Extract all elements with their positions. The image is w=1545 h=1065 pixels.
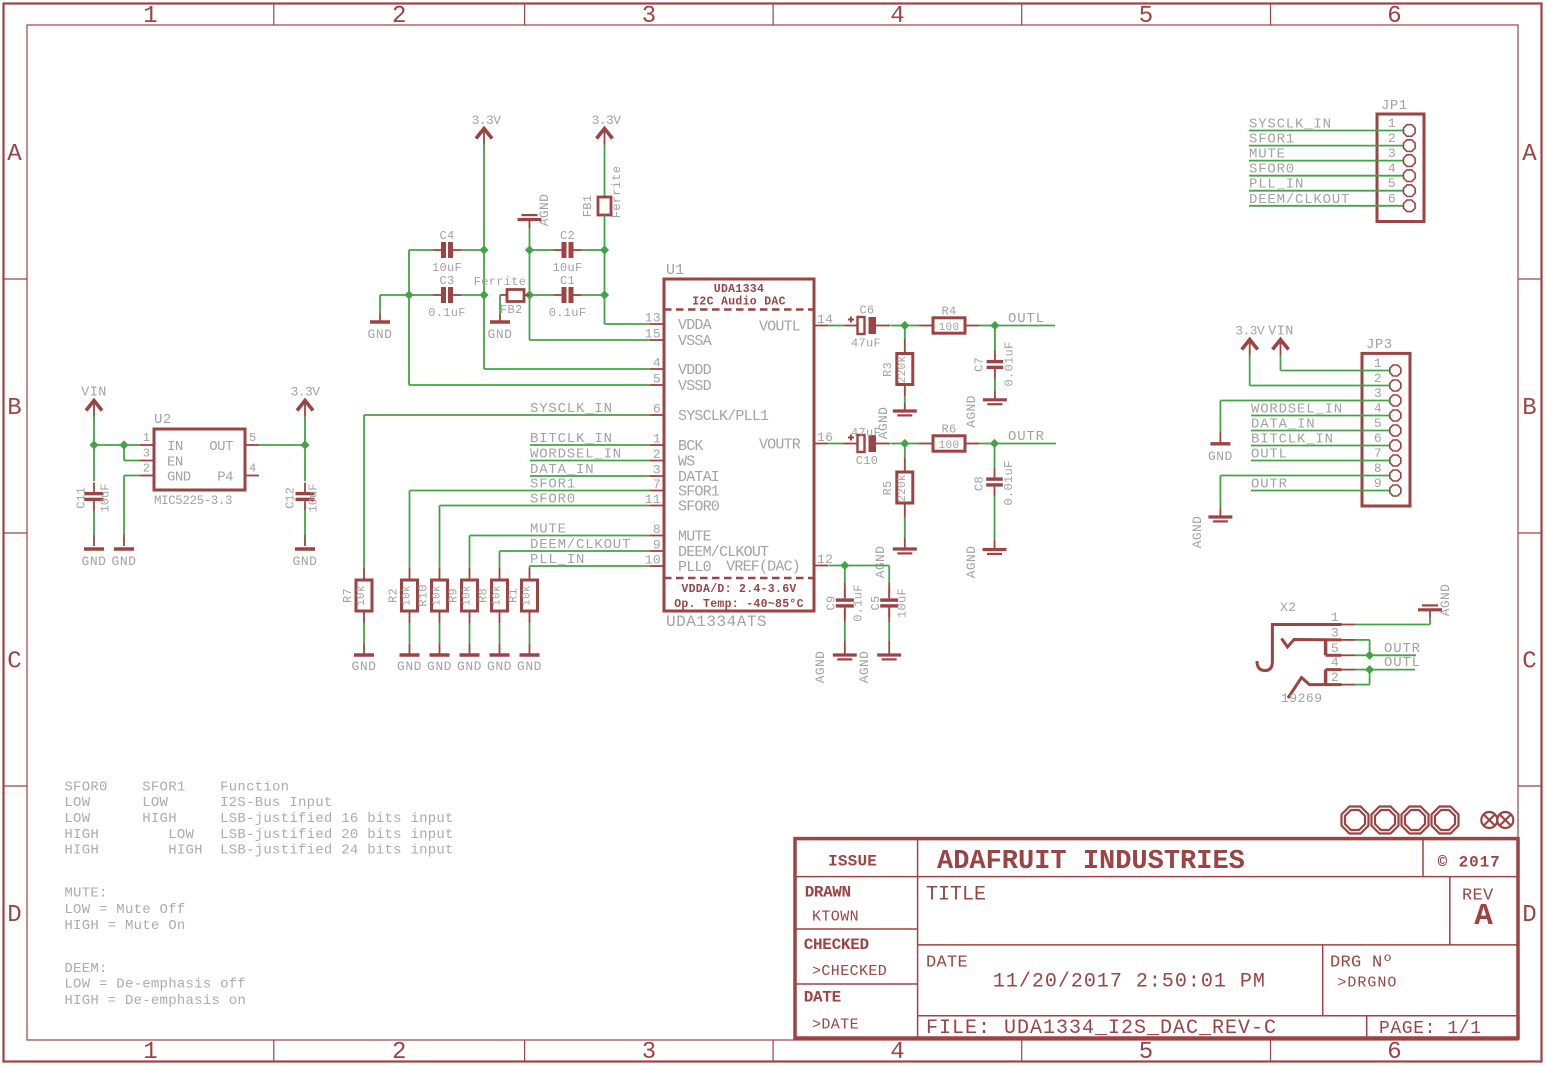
- net OUTR wire to JP3: [1251, 477, 1389, 493]
- net OUTL wire to JP3: [1251, 447, 1389, 463]
- U1 pin 4 VDDD: [650, 356, 712, 380]
- svg-text:1: 1: [653, 432, 661, 447]
- ferrite bead FB2: [474, 275, 530, 317]
- svg-text:2: 2: [392, 3, 406, 30]
- analog ground AGND under R3: [876, 407, 917, 439]
- svg-text:SFOR0 SFOR1 Function: SFOR0 SFOR1 Function: [64, 780, 289, 796]
- svg-text:BITCLK_IN: BITCLK_IN: [530, 431, 613, 447]
- wire C9 to AGND: [844, 609, 846, 655]
- svg-text:C3: C3: [439, 274, 454, 288]
- svg-text:U2: U2: [154, 412, 172, 428]
- U1 pin 10 PLL0: [645, 553, 712, 577]
- node OUTR-R junction: [900, 439, 909, 448]
- wire C3-left to U1.VSSD pin 5: [409, 295, 650, 385]
- svg-text:AGND: AGND: [1438, 584, 1453, 616]
- JP1 pin 4 SFOR0: [1249, 161, 1415, 181]
- svg-text:SFOR0: SFOR0: [1249, 162, 1295, 178]
- svg-text:5: 5: [1374, 416, 1382, 431]
- net OUTL label wire: [995, 311, 1055, 327]
- U1 pin 16 VOUTR: [759, 430, 833, 454]
- svg-text:3.3V: 3.3V: [592, 113, 622, 128]
- svg-text:GND: GND: [1208, 449, 1233, 464]
- wire EN elbow: [124, 445, 140, 461]
- svg-text:TITLE: TITLE: [926, 884, 986, 907]
- net DATA_IN wire to JP3: [1251, 417, 1389, 433]
- svg-text:R7: R7: [341, 588, 355, 603]
- wire U2.GND down: [124, 476, 140, 547]
- svg-text:R2: R2: [387, 588, 401, 603]
- svg-text:UDA1334ATS: UDA1334ATS: [666, 613, 767, 631]
- svg-text:C10: C10: [856, 454, 879, 468]
- wire X2 pin1 to AGND: [1355, 610, 1430, 625]
- wire R1 to GND: [529, 623, 531, 655]
- net PLL_IN wire: [530, 552, 651, 568]
- ground GND under R2: [397, 655, 422, 674]
- wire AGND line down to VSSA: [529, 250, 531, 295]
- resistor R10 10k: [417, 568, 448, 623]
- ground GND under R1: [517, 655, 542, 674]
- svg-text:4: 4: [653, 356, 661, 371]
- svg-text:AGND: AGND: [964, 546, 979, 578]
- U1 pin 8 MUTE: [650, 522, 712, 546]
- svg-text:DRG Nº: DRG Nº: [1330, 953, 1393, 972]
- node OUTR at X2: [1365, 651, 1374, 660]
- svg-text:AGND: AGND: [873, 546, 888, 578]
- power flag 3.3V at JP3: [1235, 324, 1265, 356]
- svg-text:LOW HIGH LSB-justifie: LOW HIGH LSB-justified 16 bits input: [64, 811, 453, 827]
- U1 pin 13 VDDA: [645, 311, 712, 335]
- svg-text:C8: C8: [973, 476, 987, 491]
- svg-text:SYSCLK_IN: SYSCLK_IN: [1249, 117, 1332, 133]
- U1 pin 1 BCK: [650, 432, 703, 456]
- title block frame: [795, 839, 1518, 1038]
- svg-text:0.01uF: 0.01uF: [1002, 460, 1016, 505]
- svg-text:R1: R1: [507, 588, 521, 603]
- svg-text:C5: C5: [869, 595, 883, 610]
- svg-text:6: 6: [1387, 3, 1401, 30]
- svg-text:>DRGNO: >DRGNO: [1337, 974, 1397, 991]
- svg-text:4: 4: [1331, 655, 1339, 670]
- svg-text:3: 3: [143, 447, 150, 461]
- svg-text:1: 1: [1374, 356, 1382, 371]
- svg-text:DEEM:: DEEM:: [64, 961, 107, 977]
- node FB2 right junction: [525, 290, 534, 299]
- svg-text:3: 3: [1374, 386, 1382, 401]
- svg-text:HIGH HIGH LSB-justifie: HIGH HIGH LSB-justified 24 bits input: [64, 843, 453, 859]
- capacitor C12 10uF: [284, 445, 321, 512]
- svg-text:GND: GND: [488, 327, 513, 342]
- connector X2 headphone jack: [1257, 600, 1355, 706]
- U1 pin 3 DATAI: [650, 463, 719, 487]
- analog ground AGND under C8: [964, 546, 1007, 578]
- wire R4 to OUTL junction: [979, 325, 995, 327]
- svg-text:1: 1: [143, 431, 150, 445]
- capacitor C3 0.1uF: [428, 274, 466, 320]
- capacitor C7 0.01uF: [973, 326, 1017, 387]
- net WORDSEL_IN wire to JP3: [1251, 402, 1389, 418]
- svg-text:C4: C4: [439, 229, 454, 243]
- svg-text:A: A: [7, 141, 22, 168]
- wire R7 to GND: [363, 623, 365, 655]
- svg-text:3.3V: 3.3V: [291, 385, 321, 400]
- wire U1 pin14 to C6: [828, 325, 844, 327]
- wire R6 to OUTR junction: [979, 443, 995, 445]
- wire X2 pin5: [1355, 654, 1370, 656]
- svg-text:R3: R3: [881, 362, 895, 377]
- JP1 pin 5 PLL_IN: [1249, 176, 1415, 196]
- notes DEEM: [64, 961, 246, 1009]
- svg-text:100: 100: [939, 440, 960, 452]
- ground GND under R7: [352, 655, 377, 674]
- power flag VIN at JP3: [1268, 325, 1294, 356]
- node C3 right junction: [479, 290, 488, 299]
- svg-text:GND: GND: [457, 659, 482, 674]
- vias: [1481, 812, 1513, 828]
- svg-text:>DATE: >DATE: [812, 1017, 859, 1034]
- svg-text:VSSA: VSSA: [678, 333, 712, 350]
- resistor R5 220k: [881, 444, 913, 518]
- svg-text:SYSCLK/PLL1: SYSCLK/PLL1: [678, 408, 769, 425]
- svg-text:11/20/2017 2:50:01 PM: 11/20/2017 2:50:01 PM: [993, 970, 1266, 993]
- svg-text:UDA1334: UDA1334: [714, 283, 764, 296]
- resistor R3 220k: [881, 326, 913, 397]
- JP1 pin 1 SYSCLK_IN: [1249, 116, 1415, 136]
- node C2 left junction: [525, 245, 534, 254]
- notes MUTE: [64, 886, 185, 934]
- capacitor C1 0.1uF: [530, 274, 605, 320]
- svg-text:19269: 19269: [1281, 691, 1323, 706]
- svg-text:VOUTR: VOUTR: [759, 437, 801, 454]
- title block REV cell: [1462, 887, 1494, 935]
- svg-text:8: 8: [653, 522, 661, 537]
- svg-text:5: 5: [1331, 641, 1339, 656]
- resistor R9 10k: [447, 568, 478, 623]
- analog ground AGND at JP3: [1190, 516, 1232, 548]
- node VIN junction: [89, 440, 98, 449]
- svg-text:10uF: 10uF: [552, 261, 582, 275]
- U1 pin 2 WS: [650, 447, 695, 471]
- svg-text:HIGH = Mute On: HIGH = Mute On: [64, 918, 185, 934]
- wire C4 left elbow: [409, 250, 433, 295]
- U1 pin 14 VOUTL: [759, 312, 833, 336]
- svg-text:WS: WS: [678, 454, 695, 471]
- svg-text:Ferrite: Ferrite: [474, 275, 527, 289]
- wire U1 pin12 VREF: [828, 565, 845, 567]
- node C1 right junction: [600, 290, 609, 299]
- svg-text:D: D: [1522, 902, 1536, 929]
- svg-text:C7: C7: [973, 357, 987, 372]
- svg-text:FB1: FB1: [581, 195, 595, 218]
- svg-text:A: A: [1522, 141, 1537, 168]
- analog ground AGND under C5: [857, 651, 901, 683]
- net DATA_IN wire: [530, 462, 650, 478]
- connector JP1: [1377, 98, 1424, 222]
- wire C3 left to GND: [380, 295, 433, 322]
- mounting holes: [1342, 807, 1459, 834]
- wire C3 right to rail: [461, 294, 484, 296]
- power flag 3.3V at U2 output: [291, 385, 321, 417]
- svg-text:HIGH = De-emphasis on: HIGH = De-emphasis on: [64, 993, 246, 1009]
- svg-text:4: 4: [1388, 161, 1396, 176]
- svg-text:OUTL: OUTL: [1008, 311, 1045, 327]
- svg-text:4: 4: [890, 3, 904, 30]
- resistor R8 10k: [477, 568, 508, 623]
- svg-text:C1: C1: [560, 274, 575, 288]
- wire C12 to GND: [304, 511, 306, 547]
- svg-text:C11: C11: [75, 487, 89, 509]
- svg-text:10uF: 10uF: [896, 588, 910, 618]
- wire R8 to GND: [499, 623, 501, 655]
- regulator U2 MIC5225-3.3: [140, 412, 259, 508]
- svg-text:VIN: VIN: [1268, 325, 1294, 340]
- resistor R4 100: [905, 305, 979, 335]
- resistor R1 10k: [507, 568, 538, 623]
- svg-text:8: 8: [1374, 461, 1382, 476]
- wire U1 pin16 to C10: [828, 443, 844, 445]
- svg-text:10k: 10k: [356, 585, 368, 606]
- U1 pin 15 VSSA: [645, 327, 712, 351]
- svg-text:AGND: AGND: [813, 651, 828, 683]
- capacitor C5 10uF: [869, 588, 910, 618]
- op-amp U1 UDA1334 I2C Audio DAC box: [664, 262, 814, 631]
- svg-text:DEEM/CLKOUT: DEEM/CLKOUT: [1249, 192, 1350, 208]
- node VREF junction: [840, 561, 849, 570]
- capacitor C10 47uF polarized: [844, 426, 890, 468]
- analog ground AGND at X2: [1418, 584, 1453, 616]
- svg-text:GND: GND: [112, 554, 137, 569]
- wire X2 pin4: [1355, 669, 1370, 671]
- U1 pin 7 SFOR1: [650, 477, 720, 501]
- svg-text:GND: GND: [82, 554, 107, 569]
- svg-text:GND: GND: [487, 659, 512, 674]
- svg-text:R10: R10: [417, 584, 431, 607]
- svg-text:LOW = De-emphasis off: LOW = De-emphasis off: [64, 977, 246, 993]
- JP1 pin 2 SFOR1: [1249, 131, 1415, 151]
- svg-text:X2: X2: [1280, 600, 1297, 615]
- wire U2.OUT to 3.3V: [259, 444, 305, 446]
- svg-text:10k: 10k: [522, 585, 534, 606]
- svg-text:MUTE: MUTE: [1249, 147, 1286, 163]
- svg-text:10uF: 10uF: [99, 484, 113, 513]
- svg-text:3: 3: [642, 3, 656, 30]
- svg-text:GND: GND: [427, 659, 452, 674]
- svg-text:3: 3: [1388, 146, 1396, 161]
- svg-text:DATE: DATE: [804, 989, 841, 1007]
- svg-text:JP1: JP1: [1381, 98, 1408, 114]
- svg-text:1: 1: [143, 1039, 157, 1065]
- svg-text:AGND: AGND: [1190, 516, 1205, 548]
- svg-text:OUTR: OUTR: [1251, 477, 1288, 493]
- svg-text:6: 6: [1388, 191, 1396, 206]
- svg-text:MIC5225-3.3: MIC5225-3.3: [154, 494, 232, 508]
- svg-text:AGND: AGND: [964, 395, 979, 427]
- svg-text:9: 9: [653, 538, 661, 553]
- svg-text:R9: R9: [447, 588, 461, 603]
- svg-text:0.01uF: 0.01uF: [1003, 341, 1017, 386]
- title block DRG cell: [1330, 953, 1397, 991]
- svg-text:2: 2: [653, 447, 661, 462]
- svg-text:5: 5: [1388, 176, 1396, 191]
- U1 pin 11 SFOR0: [645, 492, 720, 516]
- svg-text:MUTE:: MUTE:: [64, 886, 107, 902]
- resistor R6 100: [905, 423, 979, 453]
- wire JP3 pin 3 to GND: [1220, 401, 1389, 444]
- svg-text:VOUTL: VOUTL: [759, 319, 801, 336]
- wire C11 to GND: [93, 511, 95, 547]
- ground GND under FB2: [488, 322, 513, 342]
- ground GND left of C3: [368, 322, 393, 342]
- svg-text:© 2017: © 2017: [1438, 854, 1501, 872]
- svg-text:IN: IN: [167, 439, 183, 455]
- svg-text:PLL_IN: PLL_IN: [1249, 177, 1304, 193]
- capacitor C11 10uF: [75, 445, 113, 512]
- node EN junction: [119, 440, 128, 449]
- svg-text:I2C Audio DAC: I2C Audio DAC: [692, 296, 786, 309]
- svg-text:LOW LOW I2S-Bus Inpu: LOW LOW I2S-Bus Input: [64, 795, 332, 811]
- svg-text:15: 15: [645, 327, 661, 342]
- notes SFOR table: [64, 780, 453, 859]
- svg-text:>CHECKED: >CHECKED: [812, 963, 887, 980]
- wire VREF to C5 elbow: [845, 566, 889, 598]
- svg-text:VSSD: VSSD: [678, 378, 712, 395]
- svg-text:EN: EN: [167, 455, 183, 471]
- net BITCLK_IN wire to JP3: [1251, 432, 1389, 448]
- svg-text:B: B: [1522, 395, 1536, 422]
- svg-text:100: 100: [939, 322, 960, 334]
- wire FB2 left to GND: [499, 295, 501, 322]
- svg-text:4: 4: [890, 1039, 904, 1065]
- capacitor C6 47uF polarized: [844, 304, 890, 351]
- svg-text:WORDSEL_IN: WORDSEL_IN: [1251, 402, 1343, 418]
- net MUTE wire: [470, 522, 651, 569]
- ground GND under C11: [82, 549, 107, 569]
- svg-text:MUTE: MUTE: [530, 522, 567, 538]
- ground GND under U2: [112, 549, 137, 569]
- net SFOR1 wire: [410, 477, 651, 569]
- svg-text:OUTR: OUTR: [1008, 429, 1045, 445]
- ground GND under R9: [457, 655, 482, 674]
- capacitor C8 0.01uF: [973, 444, 1017, 506]
- wire FB2 right to U1.VSSA pin 15: [530, 295, 651, 340]
- svg-text:FILE: UDA1334_I2S_DAC_REV-C: FILE: UDA1334_I2S_DAC_REV-C: [926, 1017, 1277, 1040]
- wire R3 to AGND: [904, 396, 906, 411]
- svg-text:2: 2: [1331, 670, 1339, 685]
- net OUTL label at X2: [1370, 655, 1421, 671]
- capacitor C2 10uF: [544, 229, 591, 275]
- svg-text:OUTL: OUTL: [1251, 447, 1288, 463]
- U1 pin 12 VREF(DAC): [726, 552, 833, 576]
- wire VIN to JP3 pin 1: [1281, 356, 1390, 371]
- wire C8 to AGND: [994, 496, 996, 550]
- svg-text:13: 13: [645, 311, 661, 326]
- svg-text:0.1uF: 0.1uF: [428, 306, 466, 320]
- svg-text:AGND: AGND: [537, 194, 552, 226]
- svg-text:R4: R4: [941, 305, 956, 319]
- svg-text:10k: 10k: [492, 585, 504, 606]
- svg-text:KTOWN: KTOWN: [812, 909, 859, 926]
- svg-text:SYSCLK_IN: SYSCLK_IN: [530, 401, 613, 417]
- wire C7 to AGND: [994, 379, 996, 400]
- svg-text:2: 2: [143, 462, 150, 476]
- node OUT junction: [300, 440, 309, 449]
- ground GND under R8: [487, 655, 512, 674]
- wire 3.3V to FB1: [604, 145, 606, 198]
- svg-text:7: 7: [1374, 446, 1382, 461]
- svg-text:6: 6: [653, 402, 661, 417]
- svg-text:P4: P4: [217, 470, 233, 486]
- wire R10 to GND: [439, 623, 441, 655]
- svg-text:SFOR1: SFOR1: [1249, 132, 1295, 148]
- svg-text:U1: U1: [666, 262, 685, 279]
- analog ground AGND above C2: [518, 194, 553, 228]
- wire JP3 pin 8 to AGND: [1220, 476, 1389, 518]
- svg-text:5: 5: [1139, 3, 1153, 30]
- svg-text:GND: GND: [167, 470, 191, 486]
- svg-text:MUTE: MUTE: [678, 529, 712, 546]
- svg-text:R5: R5: [881, 480, 895, 495]
- svg-text:6: 6: [1374, 431, 1382, 446]
- analog ground AGND under C7: [964, 395, 1007, 427]
- svg-text:B: B: [7, 395, 21, 422]
- svg-text:GND: GND: [517, 659, 542, 674]
- svg-text:6: 6: [1387, 1039, 1401, 1065]
- svg-text:47uF: 47uF: [851, 426, 881, 440]
- svg-text:3: 3: [642, 1039, 656, 1065]
- wire VIN to U2.IN: [94, 444, 140, 446]
- svg-text:220k: 220k: [897, 474, 909, 502]
- svg-text:VDDA/D: 2.4-3.6V: VDDA/D: 2.4-3.6V: [681, 583, 796, 596]
- node C3 left junction: [404, 290, 413, 299]
- svg-text:GND: GND: [352, 659, 377, 674]
- svg-text:GND: GND: [293, 554, 318, 569]
- wire X2 pin2 elbow: [1355, 670, 1370, 685]
- svg-text:9: 9: [1374, 476, 1382, 491]
- wire 3.3V to JP3 pin 2: [1250, 356, 1389, 386]
- wire R9 to GND: [469, 623, 471, 655]
- title block DATE cell: [804, 989, 859, 1034]
- power flag 3.3V rail B: [592, 113, 622, 145]
- svg-text:D: D: [7, 902, 21, 929]
- svg-text:1: 1: [1388, 116, 1396, 131]
- ground GND under C12: [293, 549, 318, 569]
- ground GND under R10: [427, 655, 452, 674]
- svg-text:OUTL: OUTL: [1384, 655, 1421, 671]
- wire C6 to R3 junction: [891, 325, 905, 327]
- resistor R2 10k: [387, 568, 418, 623]
- svg-text:SFOR0: SFOR0: [678, 499, 720, 516]
- wire C5 to AGND: [888, 609, 890, 655]
- capacitor C4 10uF: [432, 229, 462, 275]
- wire 3.3V rail A vertical: [483, 145, 485, 251]
- wire AGND down to C2 left: [529, 228, 531, 250]
- svg-text:47uF: 47uF: [851, 337, 881, 351]
- JP1 pin 6 DEEM/CLKOUT: [1249, 191, 1415, 211]
- svg-text:DRAWN: DRAWN: [805, 884, 851, 902]
- svg-text:DATA_IN: DATA_IN: [1251, 417, 1315, 433]
- svg-text:ISSUE: ISSUE: [828, 853, 877, 871]
- svg-text:JP3: JP3: [1366, 337, 1393, 353]
- svg-text:2: 2: [1388, 131, 1396, 146]
- net DEEM/CLKOUT wire: [500, 537, 651, 568]
- ground GND at JP3: [1208, 444, 1233, 464]
- title block DRAWN cell: [805, 884, 859, 926]
- power flag VIN: [81, 386, 107, 417]
- svg-text:SFOR0: SFOR0: [530, 492, 576, 508]
- svg-text:3.3V: 3.3V: [472, 113, 502, 128]
- title block date value: [926, 953, 1266, 993]
- wire VIN vertical: [93, 417, 95, 446]
- net SYSCLK_IN wire: [364, 401, 650, 568]
